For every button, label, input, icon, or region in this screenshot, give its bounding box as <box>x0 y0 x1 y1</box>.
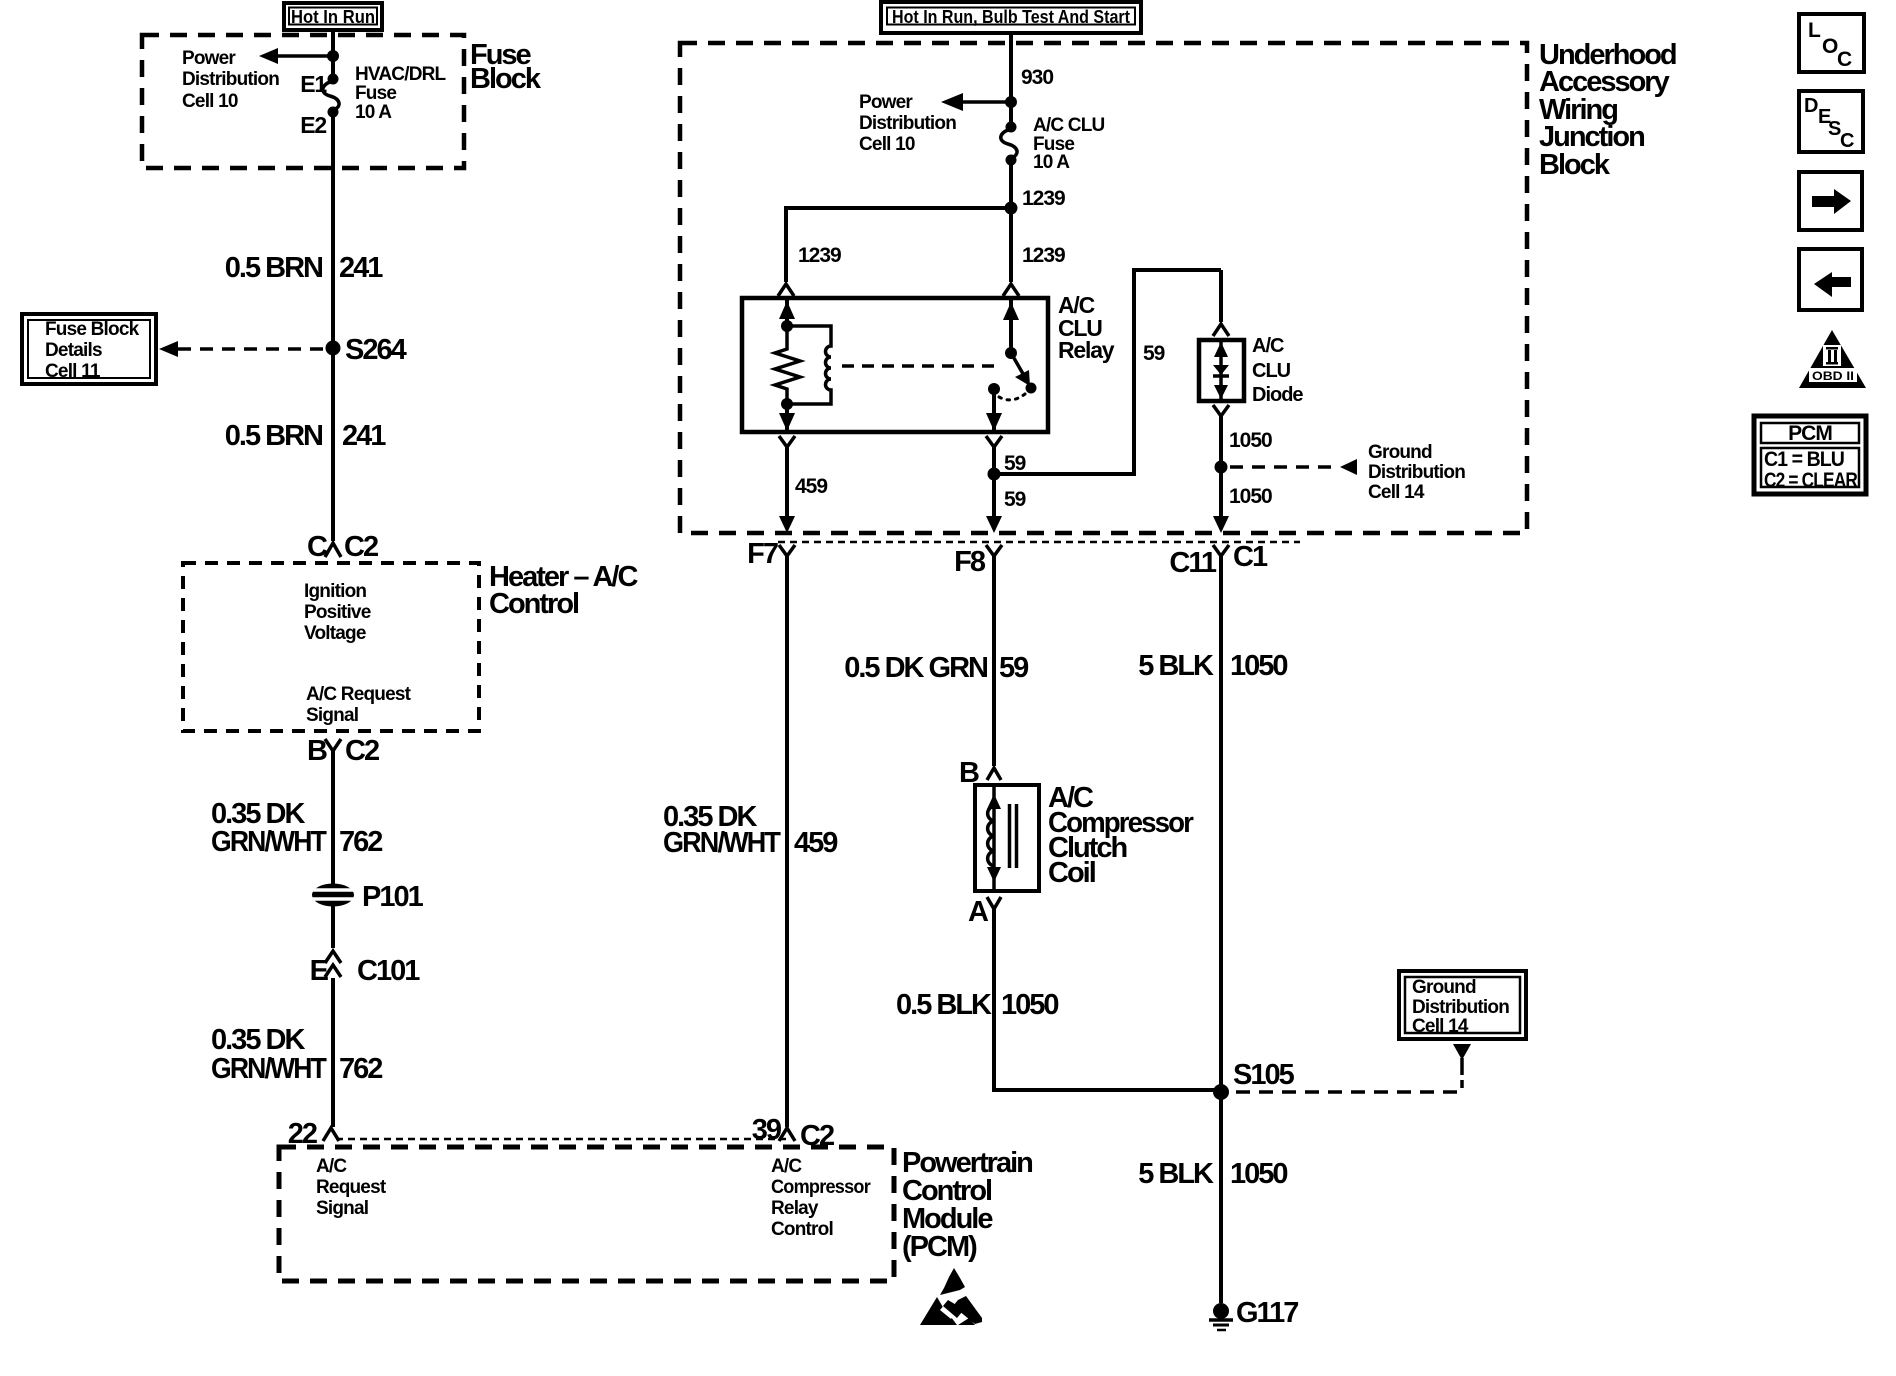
wire fuse to branch junction 1239 <box>1011 160 1065 210</box>
svg-text:E2: E2 <box>300 112 326 138</box>
svg-text:C2: C2 <box>344 531 378 563</box>
svg-text:Ground: Ground <box>1412 977 1476 998</box>
wire Hot In Run feed to fuse E1 <box>331 30 335 74</box>
wire junction block connector face (thin dashed) <box>778 541 1300 544</box>
svg-text:0.5 BRN: 0.5 BRN <box>225 252 322 284</box>
svg-text:Fuse Block: Fuse Block <box>45 319 140 340</box>
svg-text:Power: Power <box>182 48 236 69</box>
svg-text:S105: S105 <box>1233 1059 1295 1091</box>
node Hot In Run (feed label box) <box>284 3 382 30</box>
svg-text:Signal: Signal <box>306 705 358 726</box>
wire diode feed with chevron <box>1213 270 1229 336</box>
svg-text:Request: Request <box>316 1177 387 1198</box>
svg-text:Ground: Ground <box>1368 442 1432 463</box>
svg-text:Fuse: Fuse <box>355 83 396 104</box>
inductor clutch coil winding with arrows <box>987 785 1017 891</box>
wire PCM connector face (thin dashed) <box>336 1138 786 1141</box>
legend PCM connector colors <box>1754 416 1866 494</box>
wire 59 loop to A/C CLU diode <box>994 270 1221 474</box>
wire 0.5 BLK 1050 clutch return to S105 <box>896 909 1221 1090</box>
wire arrow to Power Distribution Cell 10 <box>259 48 333 64</box>
wire relay switched output with down arrow <box>986 389 1002 431</box>
node Fuse Block Details Cell 11 reference box <box>22 314 156 384</box>
svg-text:Distribution: Distribution <box>859 113 956 134</box>
icon OBD II warning triangle <box>1799 330 1866 388</box>
relay A/C CLU Relay (box) <box>742 298 1048 432</box>
connector pass-through P101 <box>312 881 424 913</box>
wire 1050 diode return to C1 <box>1213 405 1272 533</box>
svg-text:1050: 1050 <box>1230 1158 1287 1190</box>
svg-text:D: D <box>1804 95 1818 117</box>
svg-text:59: 59 <box>1143 342 1165 365</box>
label A/C CLU Diode <box>1252 335 1303 406</box>
svg-text:Relay: Relay <box>1058 337 1115 363</box>
svg-text:Block: Block <box>470 63 542 95</box>
pin 39 of PCM connector C2 <box>752 1114 834 1152</box>
svg-text:1239: 1239 <box>798 244 841 267</box>
svg-text:GRN/WHT: GRN/WHT <box>663 827 781 859</box>
svg-text:C: C <box>1837 48 1852 71</box>
svg-text:1050: 1050 <box>1230 650 1287 682</box>
svg-text:5 BLK: 5 BLK <box>1138 1158 1214 1190</box>
wire 1239 left branch to relay coil <box>778 208 1011 296</box>
svg-text:C11: C11 <box>1169 547 1216 579</box>
value label A/C CLU Fuse 10 A <box>1033 115 1105 173</box>
svg-text:1050: 1050 <box>1229 485 1272 508</box>
wire dashed reference S264 to Fuse Block Details <box>159 341 326 357</box>
switch relay movable blade <box>1011 353 1037 394</box>
wire dashed reference to Ground Distribution Cell 14 <box>1230 459 1357 475</box>
wire relay switch common feed with up arrow <box>1003 298 1019 359</box>
svg-text:39: 39 <box>752 1114 782 1146</box>
wire 459 relay output to F7 <box>779 436 827 533</box>
svg-text:Control: Control <box>489 588 578 620</box>
node Ground Distribution Cell 14 reference text <box>1368 442 1465 503</box>
svg-text:10 A: 10 A <box>1033 152 1070 173</box>
svg-text:459: 459 <box>795 475 827 498</box>
node splice S105 <box>1213 1059 1295 1100</box>
label A/C CLU Relay <box>1058 292 1115 363</box>
resistor relay coil suppression resistor <box>775 326 800 404</box>
svg-text:Cell 14: Cell 14 <box>1412 1016 1469 1037</box>
wire 5 BLK 1050 from C1 to ground G117 <box>1219 556 1223 1303</box>
pin C11 of junction block connector C1 <box>1169 541 1268 579</box>
node branch junction 1239 <box>1005 202 1018 215</box>
svg-text:Diode: Diode <box>1252 384 1303 406</box>
svg-text:Power: Power <box>859 92 913 113</box>
component Heater-A/C Control (dashed box) <box>183 563 479 731</box>
wire 0.35 DK GRN/WHT 762 upper segment <box>331 751 335 884</box>
svg-text:(PCM): (PCM) <box>902 1231 977 1263</box>
svg-text:Control: Control <box>771 1219 833 1240</box>
svg-text:E: E <box>310 955 329 987</box>
component Fuse Block (dashed box) <box>142 35 464 168</box>
wire relay coil return with down arrow <box>779 398 795 431</box>
diode internals with arrows <box>1213 340 1229 401</box>
svg-text:C1: C1 <box>1233 541 1268 573</box>
svg-text:Distribution: Distribution <box>182 69 279 90</box>
svg-text:Cell 10: Cell 10 <box>859 134 915 155</box>
wire 0.35 DK GRN/WHT 459 to PCM <box>785 556 789 1127</box>
svg-text:PCM: PCM <box>1788 422 1832 445</box>
svg-text:A/C CLU: A/C CLU <box>1033 115 1105 136</box>
svg-text:1050: 1050 <box>1001 989 1058 1021</box>
node splice S264 <box>326 334 407 366</box>
label A/C Request Signal (heater control) <box>306 684 412 726</box>
svg-text:A/C: A/C <box>771 1156 802 1177</box>
svg-text:10 A: 10 A <box>355 102 392 123</box>
svg-text:G117: G117 <box>1236 1297 1298 1329</box>
ground G117 <box>1209 1297 1298 1330</box>
label A/C Compressor Relay Control (PCM) <box>771 1156 871 1240</box>
wire arrow to Power Distribution Cell 10 (middle) <box>941 93 1011 111</box>
svg-text:59: 59 <box>999 652 1029 684</box>
label A/C Request Signal (PCM) <box>316 1156 387 1219</box>
svg-text:1239: 1239 <box>1022 244 1065 267</box>
inductor relay coil winding <box>787 326 831 404</box>
svg-text:Ignition: Ignition <box>304 581 366 602</box>
icon ESD static sensitive device symbol <box>920 1268 982 1325</box>
label Powertrain Control Module (PCM) <box>902 1147 1032 1263</box>
wire dashed actuation link coil to switch <box>842 364 1000 368</box>
wire dashed reference S105 to Ground Distribution Cell 14 <box>1236 1044 1471 1092</box>
svg-text:930: 930 <box>1021 66 1053 89</box>
value label 5 BLK 1050 (upper) <box>1138 650 1287 682</box>
wire dotted travel arc of relay contact <box>999 394 1025 400</box>
pin A of A/C compressor clutch coil <box>968 896 1001 928</box>
icon LOC box <box>1799 14 1864 72</box>
wire 0.5 DK GRN 59 to compressor clutch <box>844 556 1029 766</box>
node Hot In Run, Bulb Test And Start (feed label box) <box>881 2 1141 33</box>
svg-text:O: O <box>1822 35 1838 58</box>
svg-text:Details: Details <box>45 340 102 361</box>
svg-text:762: 762 <box>339 826 382 858</box>
value label 0.35 DK GRN/WHT 762 (lower) <box>211 1024 382 1085</box>
label Ignition Positive Voltage <box>304 581 371 644</box>
svg-text:L: L <box>1808 19 1821 42</box>
svg-text:Compressor: Compressor <box>771 1177 871 1198</box>
value label 5 BLK 1050 (lower) <box>1138 1158 1287 1190</box>
svg-text:459: 459 <box>794 827 838 859</box>
node terminal E1 <box>300 71 338 97</box>
svg-text:Cell 14: Cell 14 <box>1368 482 1425 503</box>
svg-text:Distribution: Distribution <box>1368 462 1465 483</box>
svg-text:Coil: Coil <box>1048 857 1095 889</box>
wire P101 to C101 <box>331 906 335 948</box>
svg-text:C1 = BLU: C1 = BLU <box>1764 448 1844 471</box>
component Underhood Accessory Wiring Junction Block (dashed box) <box>680 43 1527 533</box>
svg-text:Cell 11: Cell 11 <box>45 361 101 382</box>
label Heater - A/C Control <box>489 561 638 620</box>
svg-text:5 BLK: 5 BLK <box>1138 650 1214 682</box>
svg-text:GRN/WHT: GRN/WHT <box>211 1053 327 1085</box>
pin F7 of junction block <box>747 538 795 570</box>
svg-text:Signal: Signal <box>316 1198 368 1219</box>
svg-text:P101: P101 <box>362 881 424 913</box>
svg-text:59: 59 <box>1004 488 1026 511</box>
svg-text:C2: C2 <box>345 735 379 767</box>
svg-text:762: 762 <box>339 1053 382 1085</box>
svg-text:C101: C101 <box>357 955 420 987</box>
svg-text:S264: S264 <box>345 334 407 366</box>
svg-text:Positive: Positive <box>304 602 371 623</box>
pin C of connector C2 (Heater-A/C Control) <box>307 531 378 563</box>
node terminal E2 <box>300 107 338 139</box>
svg-text:241: 241 <box>342 420 386 452</box>
wire 1239 right branch to relay switch <box>1003 208 1065 296</box>
value label 0.5 BRN 241 (upper) <box>225 252 383 284</box>
svg-text:C: C <box>1840 130 1854 152</box>
svg-text:A/C Request: A/C Request <box>306 684 412 705</box>
component Powertrain Control Module PCM (dashed box) <box>279 1147 894 1281</box>
pin 22 of PCM <box>288 1118 339 1150</box>
svg-text:1239: 1239 <box>1022 187 1065 210</box>
label Fuse Block <box>470 39 542 95</box>
wire 59 relay switched output to F8 <box>986 436 1026 533</box>
svg-text:0.5 DK GRN: 0.5 DK GRN <box>844 652 987 684</box>
svg-text:C: C <box>307 531 328 563</box>
svg-text:Distribution: Distribution <box>1412 997 1509 1018</box>
svg-text:F8: F8 <box>954 546 986 578</box>
diode A/C CLU Diode (box) <box>1199 340 1244 401</box>
svg-text:59: 59 <box>1004 452 1026 475</box>
svg-text:241: 241 <box>339 252 383 284</box>
svg-text:C2 = CLEAR: C2 = CLEAR <box>1764 469 1858 492</box>
node Power Distribution Cell 10 reference text <box>182 48 279 112</box>
icon right arrow box <box>1799 172 1862 230</box>
node power distribution tap junction <box>327 50 339 62</box>
wire 0.5 BRN 241 upper segment <box>331 112 335 541</box>
label Underhood Accessory Wiring Junction Block <box>1539 39 1676 181</box>
svg-text:Relay: Relay <box>771 1198 819 1219</box>
pin F8 of junction block <box>954 545 1002 578</box>
svg-text:Hot In Run, Bulb Test And Star: Hot In Run, Bulb Test And Start <box>892 7 1130 27</box>
pin B of connector C2 (Heater-A/C Control) <box>307 735 379 767</box>
value label HVAC/DRL Fuse 10 A <box>355 64 447 123</box>
value label 0.35 DK GRN/WHT 762 (upper) <box>211 798 382 858</box>
wire 0.35 DK GRN/WHT 762 lower segment <box>331 978 335 1127</box>
pin B of A/C compressor clutch coil <box>959 757 1001 789</box>
svg-text:HVAC/DRL: HVAC/DRL <box>355 64 447 85</box>
svg-text:0.35 DK: 0.35 DK <box>211 1024 305 1056</box>
svg-text:A/C: A/C <box>316 1156 347 1177</box>
svg-text:B: B <box>307 735 327 767</box>
svg-text:GRN/WHT: GRN/WHT <box>211 826 327 858</box>
value label 0.35 DK GRN/WHT 459 <box>663 801 838 859</box>
wire 930 feed into junction block <box>1011 33 1053 124</box>
label A/C Compressor Clutch Coil <box>1048 782 1194 889</box>
component A/C Compressor Clutch Coil (box) <box>975 785 1039 891</box>
fuse HVAC/DRL Fuse 10A <box>323 81 339 110</box>
svg-text:Voltage: Voltage <box>304 623 366 644</box>
svg-text:0.5 BLK: 0.5 BLK <box>896 989 992 1021</box>
svg-text:Hot In Run: Hot In Run <box>291 7 375 27</box>
svg-text:Block: Block <box>1539 149 1611 181</box>
svg-text:OBD II: OBD II <box>1812 369 1854 383</box>
node Power Distribution Cell 10 reference text (middle) <box>859 92 956 155</box>
node relay normally-open contact <box>988 383 1000 395</box>
svg-text:A/C: A/C <box>1252 335 1284 357</box>
icon left arrow box <box>1799 249 1862 310</box>
svg-text:F7: F7 <box>747 538 778 570</box>
node power distribution tap junction (middle) <box>1005 96 1017 108</box>
svg-text:CLU: CLU <box>1252 360 1291 382</box>
svg-text:A: A <box>968 896 989 928</box>
pin E of connector C101 <box>310 951 421 987</box>
icon DESC box <box>1799 91 1863 152</box>
fuse A/C CLU Fuse 10A <box>1001 122 1017 166</box>
node Ground Distribution Cell 14 reference box <box>1399 971 1526 1039</box>
wire relay coil feed with up arrow <box>779 298 795 332</box>
value label 0.5 BRN 241 (lower) <box>225 420 386 452</box>
svg-text:0.5 BRN: 0.5 BRN <box>225 420 322 452</box>
svg-text:1050: 1050 <box>1229 429 1272 452</box>
svg-text:Cell 10: Cell 10 <box>182 91 238 112</box>
